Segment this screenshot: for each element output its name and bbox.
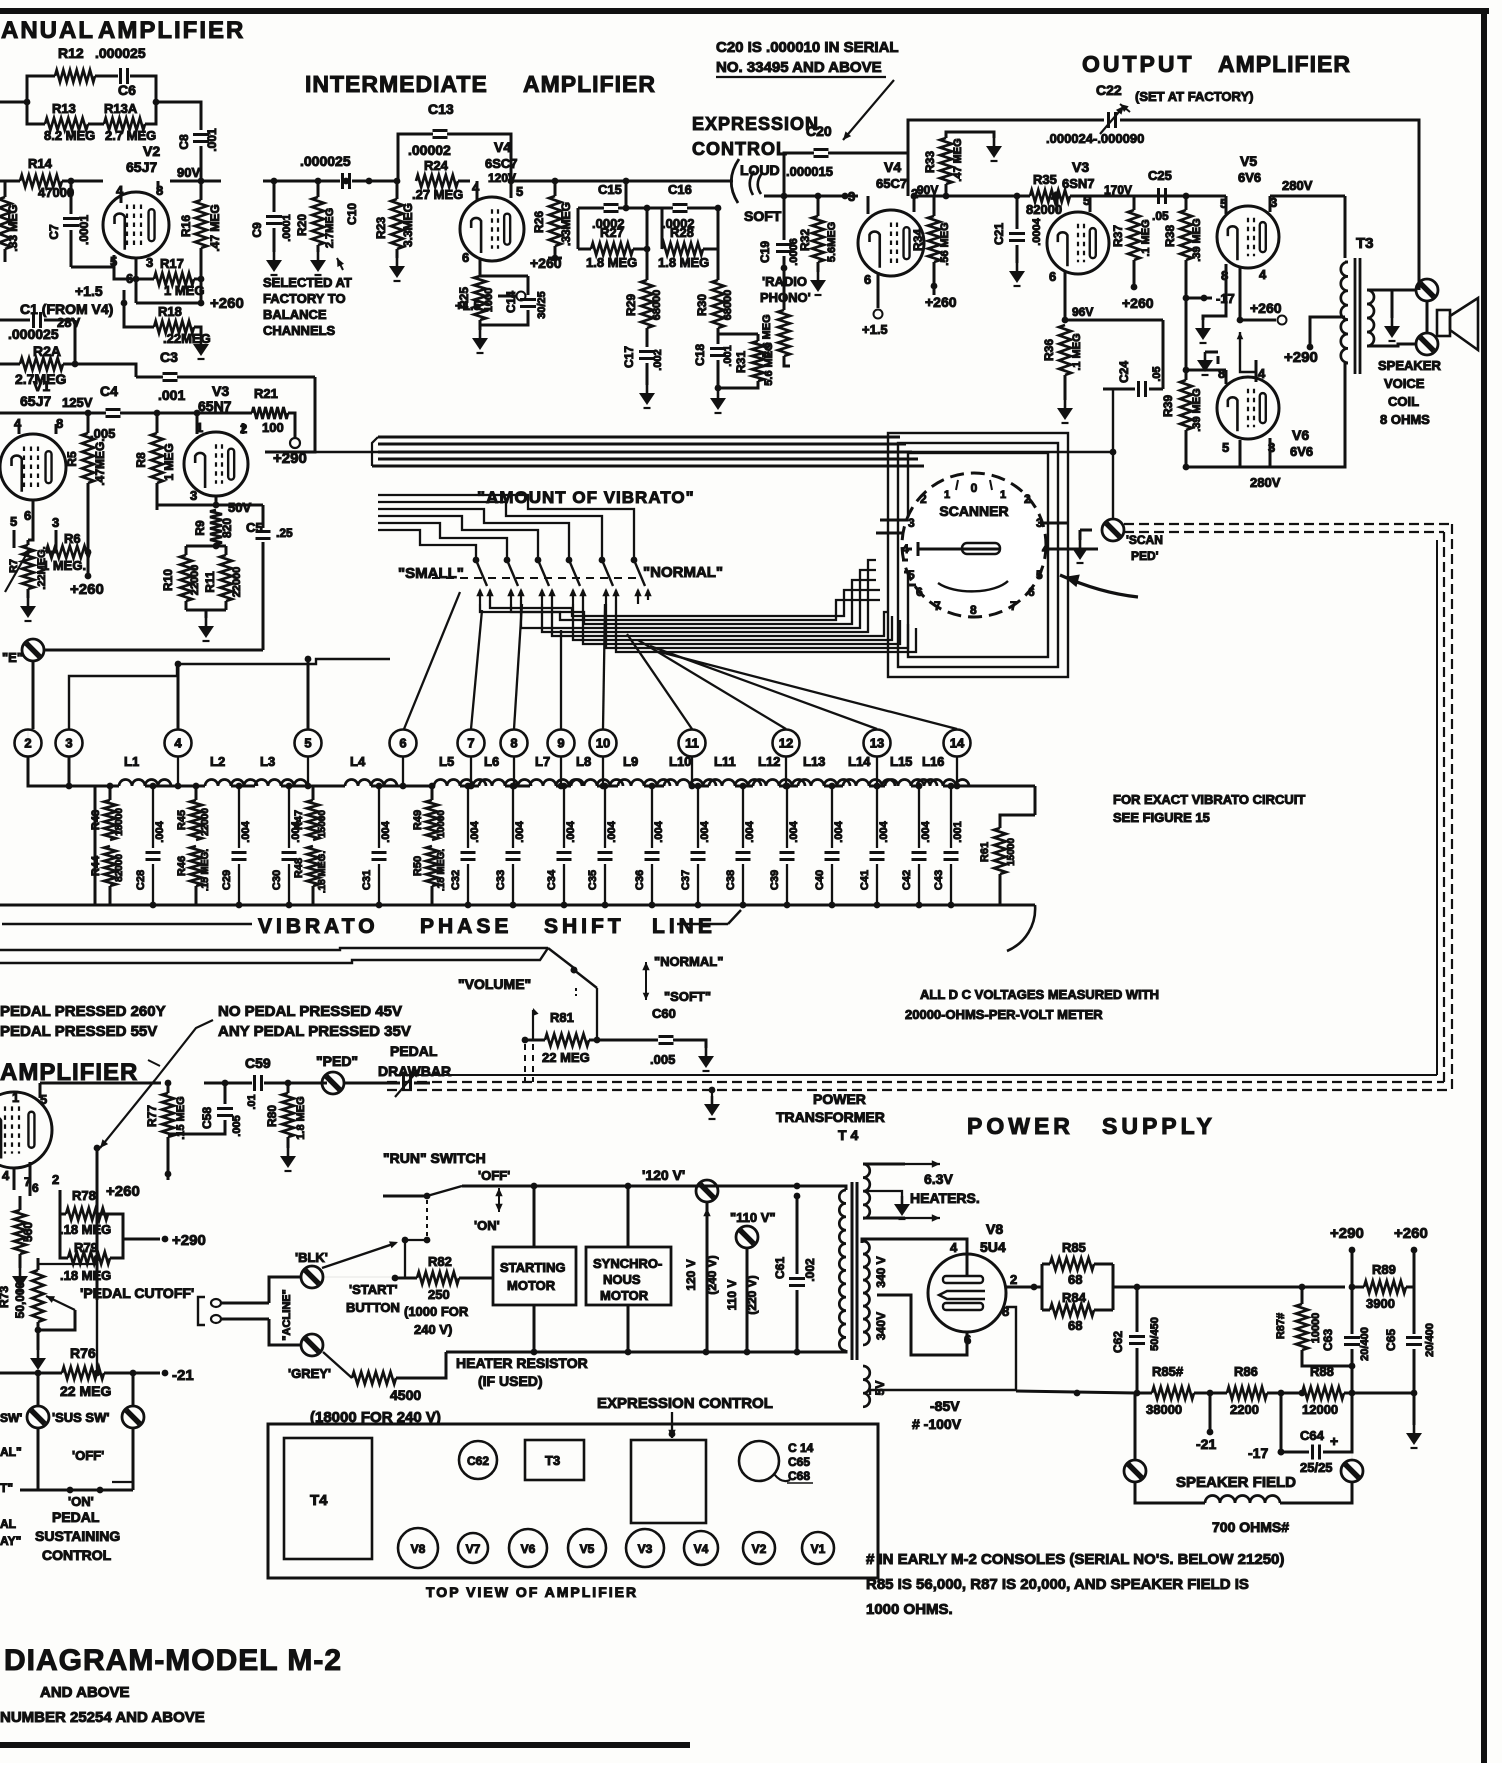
- svg-text:"ACLINE": "ACLINE": [281, 1289, 293, 1340]
- svg-text:-17: -17: [1248, 1445, 1268, 1461]
- svg-text:'START': 'START': [349, 1282, 398, 1297]
- svg-text:V2: V2: [752, 1542, 767, 1556]
- svg-text:C36: C36: [634, 870, 646, 890]
- switch LOUD SOFT: [729, 159, 787, 224]
- svg-text:L16: L16: [922, 754, 944, 769]
- arrow vibrato pointer: [1060, 575, 1138, 598]
- svg-text:1.8 MEG: 1.8 MEG: [295, 1096, 307, 1139]
- svg-text:.00002: .00002: [408, 142, 451, 158]
- label expression control 2: [597, 1395, 773, 1438]
- svg-text:R13: R13: [52, 101, 76, 116]
- wire E to C5: [44, 542, 263, 650]
- svg-text:L11: L11: [714, 754, 736, 769]
- svg-text:6: 6: [916, 585, 923, 599]
- capacitor C15: [592, 182, 625, 231]
- svg-text:(220 V): (220 V): [745, 1275, 759, 1314]
- ground C60: [698, 1048, 714, 1071]
- label speaker voice coil: [1378, 358, 1441, 427]
- svg-text:6: 6: [399, 736, 406, 751]
- svg-text:2: 2: [52, 1172, 59, 1187]
- tube V2: [103, 181, 169, 303]
- wire to V4b: [784, 193, 858, 200]
- label off on: [68, 1448, 104, 1509]
- svg-text:25/25: 25/25: [1300, 1460, 1333, 1475]
- wire +290: [1284, 317, 1345, 366]
- svg-text:L10: L10: [669, 754, 691, 769]
- capacitor C25: [1148, 168, 1172, 223]
- svg-text:C16: C16: [668, 182, 692, 197]
- svg-text:.47 MEG: .47 MEG: [952, 138, 964, 181]
- phase line bottom rail: [0, 786, 1035, 905]
- svg-text:SUSTAINING: SUSTAINING: [35, 1528, 120, 1544]
- ground R10 R11: [198, 618, 214, 641]
- svg-text:SUPPLY: SUPPLY: [1102, 1113, 1216, 1139]
- svg-text:T4: T4: [310, 1492, 328, 1509]
- svg-text:R8: R8: [134, 452, 148, 468]
- wire volume to R81: [594, 988, 601, 1043]
- run switch: [383, 1186, 462, 1243]
- svg-text:HEATERS.: HEATERS.: [910, 1190, 980, 1206]
- terminal field right: [1341, 1452, 1363, 1482]
- label normal: [643, 564, 723, 581]
- svg-text:EXPRESSION CONTROL: EXPRESSION CONTROL: [597, 1395, 773, 1412]
- svg-text:.004: .004: [920, 820, 932, 842]
- svg-text:.56 MEG: .56 MEG: [939, 222, 951, 265]
- wire supply main: [1113, 1284, 1355, 1291]
- resistor R37: [1111, 193, 1189, 311]
- svg-text:NO. 33495 AND ABOVE: NO. 33495 AND ABOVE: [716, 59, 882, 76]
- svg-text:R34: R34: [911, 229, 925, 251]
- svg-text:280V: 280V: [1250, 475, 1281, 490]
- svg-text:PED': PED': [1131, 549, 1159, 563]
- svg-text:L13: L13: [803, 754, 825, 769]
- svg-text:.001: .001: [722, 345, 734, 366]
- svg-text:C61: C61: [773, 1257, 787, 1279]
- svg-text:C30: C30: [271, 870, 283, 890]
- label EXPRESSION CONTROL: [692, 114, 819, 159]
- svg-text:R23: R23: [374, 217, 388, 239]
- svg-text:"SMALL": "SMALL": [398, 565, 464, 582]
- capacitor C13 feedback: [398, 101, 511, 181]
- ground R73: [30, 1330, 46, 1373]
- svg-text:C58: C58: [200, 1107, 214, 1129]
- svg-text:+260: +260: [70, 581, 104, 598]
- svg-text:C4: C4: [100, 383, 118, 399]
- svg-text:AL": AL": [0, 1445, 22, 1459]
- svg-text:T 4: T 4: [838, 1127, 858, 1143]
- svg-text:2.7MEG: 2.7MEG: [324, 208, 336, 248]
- resistor R10: [161, 555, 201, 601]
- svg-text:C13: C13: [428, 101, 454, 117]
- note C20 serial: [716, 39, 899, 140]
- wire V6 bottom 280V: [1186, 363, 1345, 490]
- svg-text:.22MEG.: .22MEG.: [36, 546, 48, 589]
- plug AC: [198, 1297, 269, 1325]
- svg-text:5: 5: [1036, 568, 1043, 582]
- svg-text:3: 3: [65, 736, 72, 751]
- label left cut AL: [0, 1445, 22, 1548]
- svg-text:T": T": [0, 1481, 13, 1495]
- svg-text:PEDAL PRESSED 55V: PEDAL PRESSED 55V: [0, 1023, 157, 1040]
- svg-text:R26: R26: [532, 211, 546, 233]
- svg-text:.18 MEG: .18 MEG: [60, 1222, 111, 1237]
- phase line rail: [95, 785, 1035, 788]
- svg-text:C31: C31: [361, 870, 373, 890]
- svg-text:R73: R73: [0, 1286, 11, 1308]
- svg-text:V3: V3: [212, 383, 229, 399]
- note pedal pressed: [0, 1003, 166, 1040]
- svg-text:8: 8: [970, 603, 977, 617]
- ground scan ped: [1072, 530, 1088, 563]
- resistor 560: [14, 1196, 35, 1268]
- scanner right wires: [1040, 523, 1098, 549]
- dashed risers: [525, 1044, 533, 1082]
- svg-text:R10: R10: [161, 569, 175, 591]
- tube V4b: [848, 159, 938, 296]
- svg-text:1.8 MEG: 1.8 MEG: [658, 255, 709, 270]
- svg-text:68000: 68000: [722, 290, 734, 321]
- svg-text:.18 MEG: .18 MEG: [60, 1268, 111, 1283]
- svg-text:R24: R24: [424, 158, 449, 173]
- terminal 110V: [725, 1210, 776, 1352]
- svg-text:.000024-.000090: .000024-.000090: [1046, 131, 1144, 146]
- wire V4b plate: [914, 195, 1030, 198]
- node +260 output: [1237, 300, 1287, 382]
- svg-text:C7: C7: [47, 224, 61, 240]
- svg-text:R85 IS 56,000, R87 IS 20,000,: R85 IS 56,000, R87 IS 20,000, AND SPEAKE…: [866, 1576, 1249, 1593]
- svg-text:1.8 MEG: 1.8 MEG: [586, 255, 637, 270]
- wire 5u4 output: [1005, 1284, 1042, 1291]
- svg-text:.000025: .000025: [300, 153, 351, 169]
- capacitor C4: [90, 383, 121, 441]
- svg-text:L4: L4: [350, 754, 366, 769]
- svg-text:+290: +290: [1330, 1225, 1364, 1242]
- dashed bus top: [1124, 524, 1452, 532]
- label pedal cutoff: [80, 1285, 194, 1301]
- svg-text:(IF USED): (IF USED): [478, 1373, 543, 1389]
- ground 560: [12, 1268, 28, 1291]
- svg-text:4: 4: [950, 1240, 958, 1255]
- resistor R32: [798, 196, 838, 272]
- svg-text:.33 MEG: .33 MEG: [6, 204, 20, 251]
- svg-text:.000015: .000015: [786, 164, 833, 179]
- motor top wires: [534, 1186, 628, 1247]
- title amplifier lower: [0, 1059, 160, 1086]
- svg-text:C9: C9: [250, 222, 264, 238]
- capacitor C16: [662, 182, 695, 231]
- note and above: [0, 1684, 205, 1726]
- capacitor C10: [343, 173, 360, 225]
- svg-text:STARTING: STARTING: [500, 1260, 565, 1275]
- svg-text:R18: R18: [158, 304, 182, 319]
- resistor R24: [412, 158, 470, 202]
- terminal circles row: [15, 730, 971, 757]
- svg-text:DIAGRAM-MODEL M-2: DIAGRAM-MODEL M-2: [4, 1644, 342, 1677]
- node +290 supply: [1330, 1225, 1364, 1287]
- node -17: [1186, 291, 1235, 306]
- bottom rail motors: [446, 1349, 843, 1356]
- svg-text:CHANNELS: CHANNELS: [263, 323, 336, 338]
- rail -85V: [912, 1390, 1152, 1432]
- svg-text:C39: C39: [769, 870, 781, 890]
- svg-text:C15: C15: [598, 182, 622, 197]
- svg-text:65J7: 65J7: [20, 393, 51, 409]
- svg-text:.004: .004: [469, 820, 481, 842]
- svg-text:L15: L15: [890, 754, 912, 769]
- network R25 C14: [455, 276, 548, 330]
- svg-text:3: 3: [908, 516, 915, 530]
- svg-text:R84: R84: [1062, 1290, 1087, 1305]
- resistor R6: [42, 530, 91, 573]
- resistor R89: [1352, 1262, 1414, 1311]
- svg-text:R28: R28: [670, 225, 694, 240]
- svg-text:R48: R48: [293, 858, 305, 878]
- start blade: [322, 1241, 400, 1315]
- svg-text:C5: C5: [246, 520, 263, 535]
- svg-text:4: 4: [1258, 366, 1266, 381]
- transformer heater winding: [863, 1160, 940, 1221]
- terminal field left: [1124, 1393, 1146, 1482]
- wire C3 row: [136, 377, 315, 452]
- svg-text:FOR EXACT VIBRATO CIRCUIT: FOR EXACT VIBRATO CIRCUIT: [1113, 792, 1305, 807]
- label pedal drawbar: [378, 1043, 451, 1079]
- terminal 120V: [642, 1167, 719, 1352]
- svg-text:6: 6: [24, 508, 31, 523]
- svg-text:22000: 22000: [200, 808, 211, 836]
- label V2 6SJ7: [126, 143, 200, 180]
- label V1: [20, 378, 93, 410]
- svg-text:C64: C64: [1300, 1428, 1325, 1443]
- svg-text:4: 4: [1259, 267, 1267, 282]
- svg-text:C20: C20: [806, 123, 832, 139]
- ground C18: [710, 390, 726, 413]
- svg-text:6: 6: [32, 1181, 39, 1195]
- svg-text:+260: +260: [925, 294, 957, 310]
- scanner wiper: [906, 542, 1008, 591]
- svg-text:.001: .001: [952, 821, 964, 842]
- tube V1: [0, 416, 66, 530]
- resistor R43 R44: [90, 783, 125, 905]
- svg-text:8 OHMS: 8 OHMS: [1380, 412, 1430, 427]
- label normal2: [654, 954, 723, 969]
- svg-text:5.6MEG: 5.6MEG: [826, 222, 838, 262]
- svg-text:8.2 MEG: 8.2 MEG: [44, 128, 95, 143]
- svg-text:+260: +260: [106, 1183, 140, 1200]
- terminal E: [2, 639, 44, 665]
- main wire pedal row: [40, 1080, 327, 1087]
- svg-text:8: 8: [510, 736, 517, 751]
- svg-text:CONTROL: CONTROL: [42, 1547, 112, 1563]
- run wire top: [462, 1183, 707, 1190]
- svg-text:700 OHMS#: 700 OHMS#: [1212, 1519, 1289, 1535]
- resistor R47 R48: [293, 786, 328, 905]
- svg-text:13: 13: [870, 736, 884, 751]
- svg-text:SW': SW': [0, 1411, 22, 1425]
- wire V2 cathode bottom: [71, 267, 154, 282]
- svg-text:3: 3: [52, 515, 59, 530]
- svg-text:C3: C3: [160, 349, 178, 365]
- wire 170V C25: [1090, 196, 1186, 210]
- resistor R20: [295, 181, 336, 252]
- svg-text:.47MEG.: .47MEG.: [93, 438, 107, 485]
- label V3 6SN7: [198, 383, 232, 414]
- resistor R17: [154, 256, 204, 298]
- svg-text:.004: .004: [653, 820, 665, 842]
- svg-text:-21: -21: [1196, 1436, 1216, 1452]
- label +1.5 V2: [75, 283, 127, 306]
- svg-text:.15 MEG.: .15 MEG.: [200, 849, 211, 891]
- scanner shield boxes: [888, 433, 1068, 677]
- resistor R5: [65, 413, 107, 576]
- svg-text:'ON': 'ON': [474, 1218, 500, 1233]
- ground R7: [20, 598, 36, 621]
- svg-text:V3: V3: [1072, 159, 1089, 175]
- svg-text:C10: C10: [345, 203, 359, 225]
- svg-text:"SOFT": "SOFT": [664, 989, 711, 1004]
- svg-text:.39 MEG: .39 MEG: [1191, 388, 1203, 431]
- resistor R27: [586, 225, 637, 270]
- svg-text:"NORMAL": "NORMAL": [654, 954, 723, 969]
- svg-text:2.7 MEG: 2.7 MEG: [105, 128, 156, 143]
- svg-text:.05: .05: [1152, 209, 1169, 223]
- chassis C62: [459, 1441, 497, 1479]
- svg-text:'OFF': 'OFF': [478, 1168, 510, 1183]
- resistor R81: [522, 1010, 658, 1065]
- resistor R38: [1163, 210, 1203, 380]
- svg-text:V7: V7: [466, 1542, 481, 1556]
- svg-text:L2: L2: [210, 754, 225, 769]
- wire 125V row: [0, 410, 252, 423]
- svg-text:R36: R36: [1042, 339, 1056, 361]
- resistor R87 C63: [1275, 1287, 1371, 1393]
- leader diagonal: [100, 1080, 155, 1148]
- svg-text:AL: AL: [0, 1517, 16, 1531]
- svg-text:R46: R46: [176, 856, 188, 876]
- resistor R18: [57, 303, 211, 346]
- svg-text:V4: V4: [884, 159, 901, 175]
- resistor R8: [134, 413, 176, 510]
- svg-text:L8: L8: [576, 754, 591, 769]
- svg-text:.004: .004: [514, 820, 526, 842]
- capacitor C62: [1111, 1287, 1161, 1393]
- svg-text:.002: .002: [652, 349, 664, 370]
- wire +1.5 V4b: [862, 296, 888, 337]
- svg-text:C68: C68: [788, 1469, 810, 1483]
- svg-text:C8: C8: [177, 134, 191, 150]
- chassis expression box: [631, 1440, 706, 1523]
- svg-text:COIL: COIL: [1388, 394, 1419, 409]
- svg-text:250: 250: [428, 1287, 450, 1302]
- node +260 supply: [1394, 1225, 1428, 1287]
- wire terminal3 riser: [69, 659, 390, 729]
- svg-text:AMPLIFIER: AMPLIFIER: [98, 17, 245, 44]
- svg-text:C20 IS .000010 IN SERIAL: C20 IS .000010 IN SERIAL: [716, 39, 899, 56]
- node +260 V1: [70, 573, 104, 598]
- scanner numbers: [902, 480, 1049, 617]
- svg-text:+260: +260: [1122, 295, 1154, 311]
- svg-text:.0004: .0004: [1031, 217, 1043, 245]
- capacitor C5: [246, 505, 293, 649]
- svg-text:3: 3: [146, 255, 153, 270]
- svg-text:AY": AY": [0, 1534, 21, 1548]
- svg-text:R87#: R87#: [1275, 1313, 1287, 1339]
- starting motor box: [493, 1247, 576, 1305]
- capacitor C65: [1384, 1287, 1436, 1425]
- svg-text:R61: R61: [979, 842, 991, 862]
- wire feedback box: [0, 76, 201, 130]
- svg-text:C62: C62: [1111, 1331, 1125, 1353]
- resistor R23: [374, 178, 415, 258]
- svg-text:6.3V: 6.3V: [924, 1171, 953, 1187]
- svg-text:5: 5: [908, 568, 915, 582]
- svg-text:PEDAL PRESSED 260Y: PEDAL PRESSED 260Y: [0, 1003, 166, 1020]
- svg-text:R33: R33: [923, 151, 937, 173]
- svg-text:R9: R9: [193, 520, 207, 536]
- svg-text:.25: .25: [276, 526, 293, 540]
- resistor R80: [265, 1083, 307, 1148]
- capacitor C60: [650, 1006, 706, 1067]
- label off2: [478, 1168, 510, 1183]
- inductors L1-L16: [119, 754, 969, 786]
- svg-text:MOTOR: MOTOR: [507, 1278, 556, 1293]
- bus wires to scanner: [372, 437, 924, 466]
- capacitor C19: [758, 196, 800, 271]
- capacitor C17: [622, 346, 664, 385]
- svg-text:R88: R88: [1310, 1364, 1334, 1379]
- motor bottom wires: [534, 1305, 628, 1352]
- svg-text:R79: R79: [74, 1240, 98, 1255]
- terminal drops to rail: [175, 757, 961, 789]
- svg-text:R82: R82: [428, 1254, 452, 1269]
- note for exact vibrato: [1113, 792, 1305, 825]
- svg-text:.004: .004: [744, 820, 756, 842]
- svg-text:.1 MEG: .1 MEG: [1140, 219, 1152, 256]
- svg-text:C21: C21: [992, 223, 1006, 245]
- svg-text:5V: 5V: [873, 1381, 887, 1396]
- label heater resistor: [456, 1355, 588, 1389]
- svg-text:C65: C65: [788, 1455, 810, 1469]
- capacitor C61: [773, 1193, 817, 1352]
- svg-text:R30: R30: [695, 294, 709, 316]
- terminal BLK: [295, 1250, 328, 1288]
- svg-text:20/400: 20/400: [1424, 1323, 1436, 1357]
- svg-text:3.3MEG: 3.3MEG: [401, 203, 415, 247]
- svg-text:90V: 90V: [177, 165, 200, 180]
- svg-text:C 14: C 14: [788, 1441, 814, 1455]
- svg-text:V1: V1: [33, 378, 50, 394]
- trim cap pedal: [344, 1069, 430, 1097]
- svg-text:6SN7: 6SN7: [1062, 176, 1095, 191]
- svg-text:R39: R39: [1161, 395, 1175, 417]
- svg-text:R45: R45: [176, 810, 188, 830]
- scanner label: [939, 503, 1008, 519]
- svg-text:C22: C22: [1096, 82, 1122, 98]
- capacitor C21: [992, 193, 1043, 263]
- wire 5u4 plate top: [862, 1239, 967, 1276]
- tube V5: [1186, 153, 1279, 320]
- svg-text:R32: R32: [798, 229, 812, 251]
- svg-text:'120 V': '120 V': [642, 1167, 685, 1183]
- svg-text:CONTROL: CONTROL: [692, 139, 788, 159]
- svg-text:L1: L1: [124, 754, 139, 769]
- resistor R28: [658, 225, 709, 270]
- svg-text:R13A: R13A: [104, 101, 138, 116]
- svg-text:MOTOR: MOTOR: [600, 1288, 649, 1303]
- svg-text:50/450: 50/450: [1149, 1317, 1161, 1351]
- svg-text:R49: R49: [412, 810, 424, 830]
- border bottom-left: [0, 1742, 690, 1748]
- svg-text:C17: C17: [622, 346, 636, 368]
